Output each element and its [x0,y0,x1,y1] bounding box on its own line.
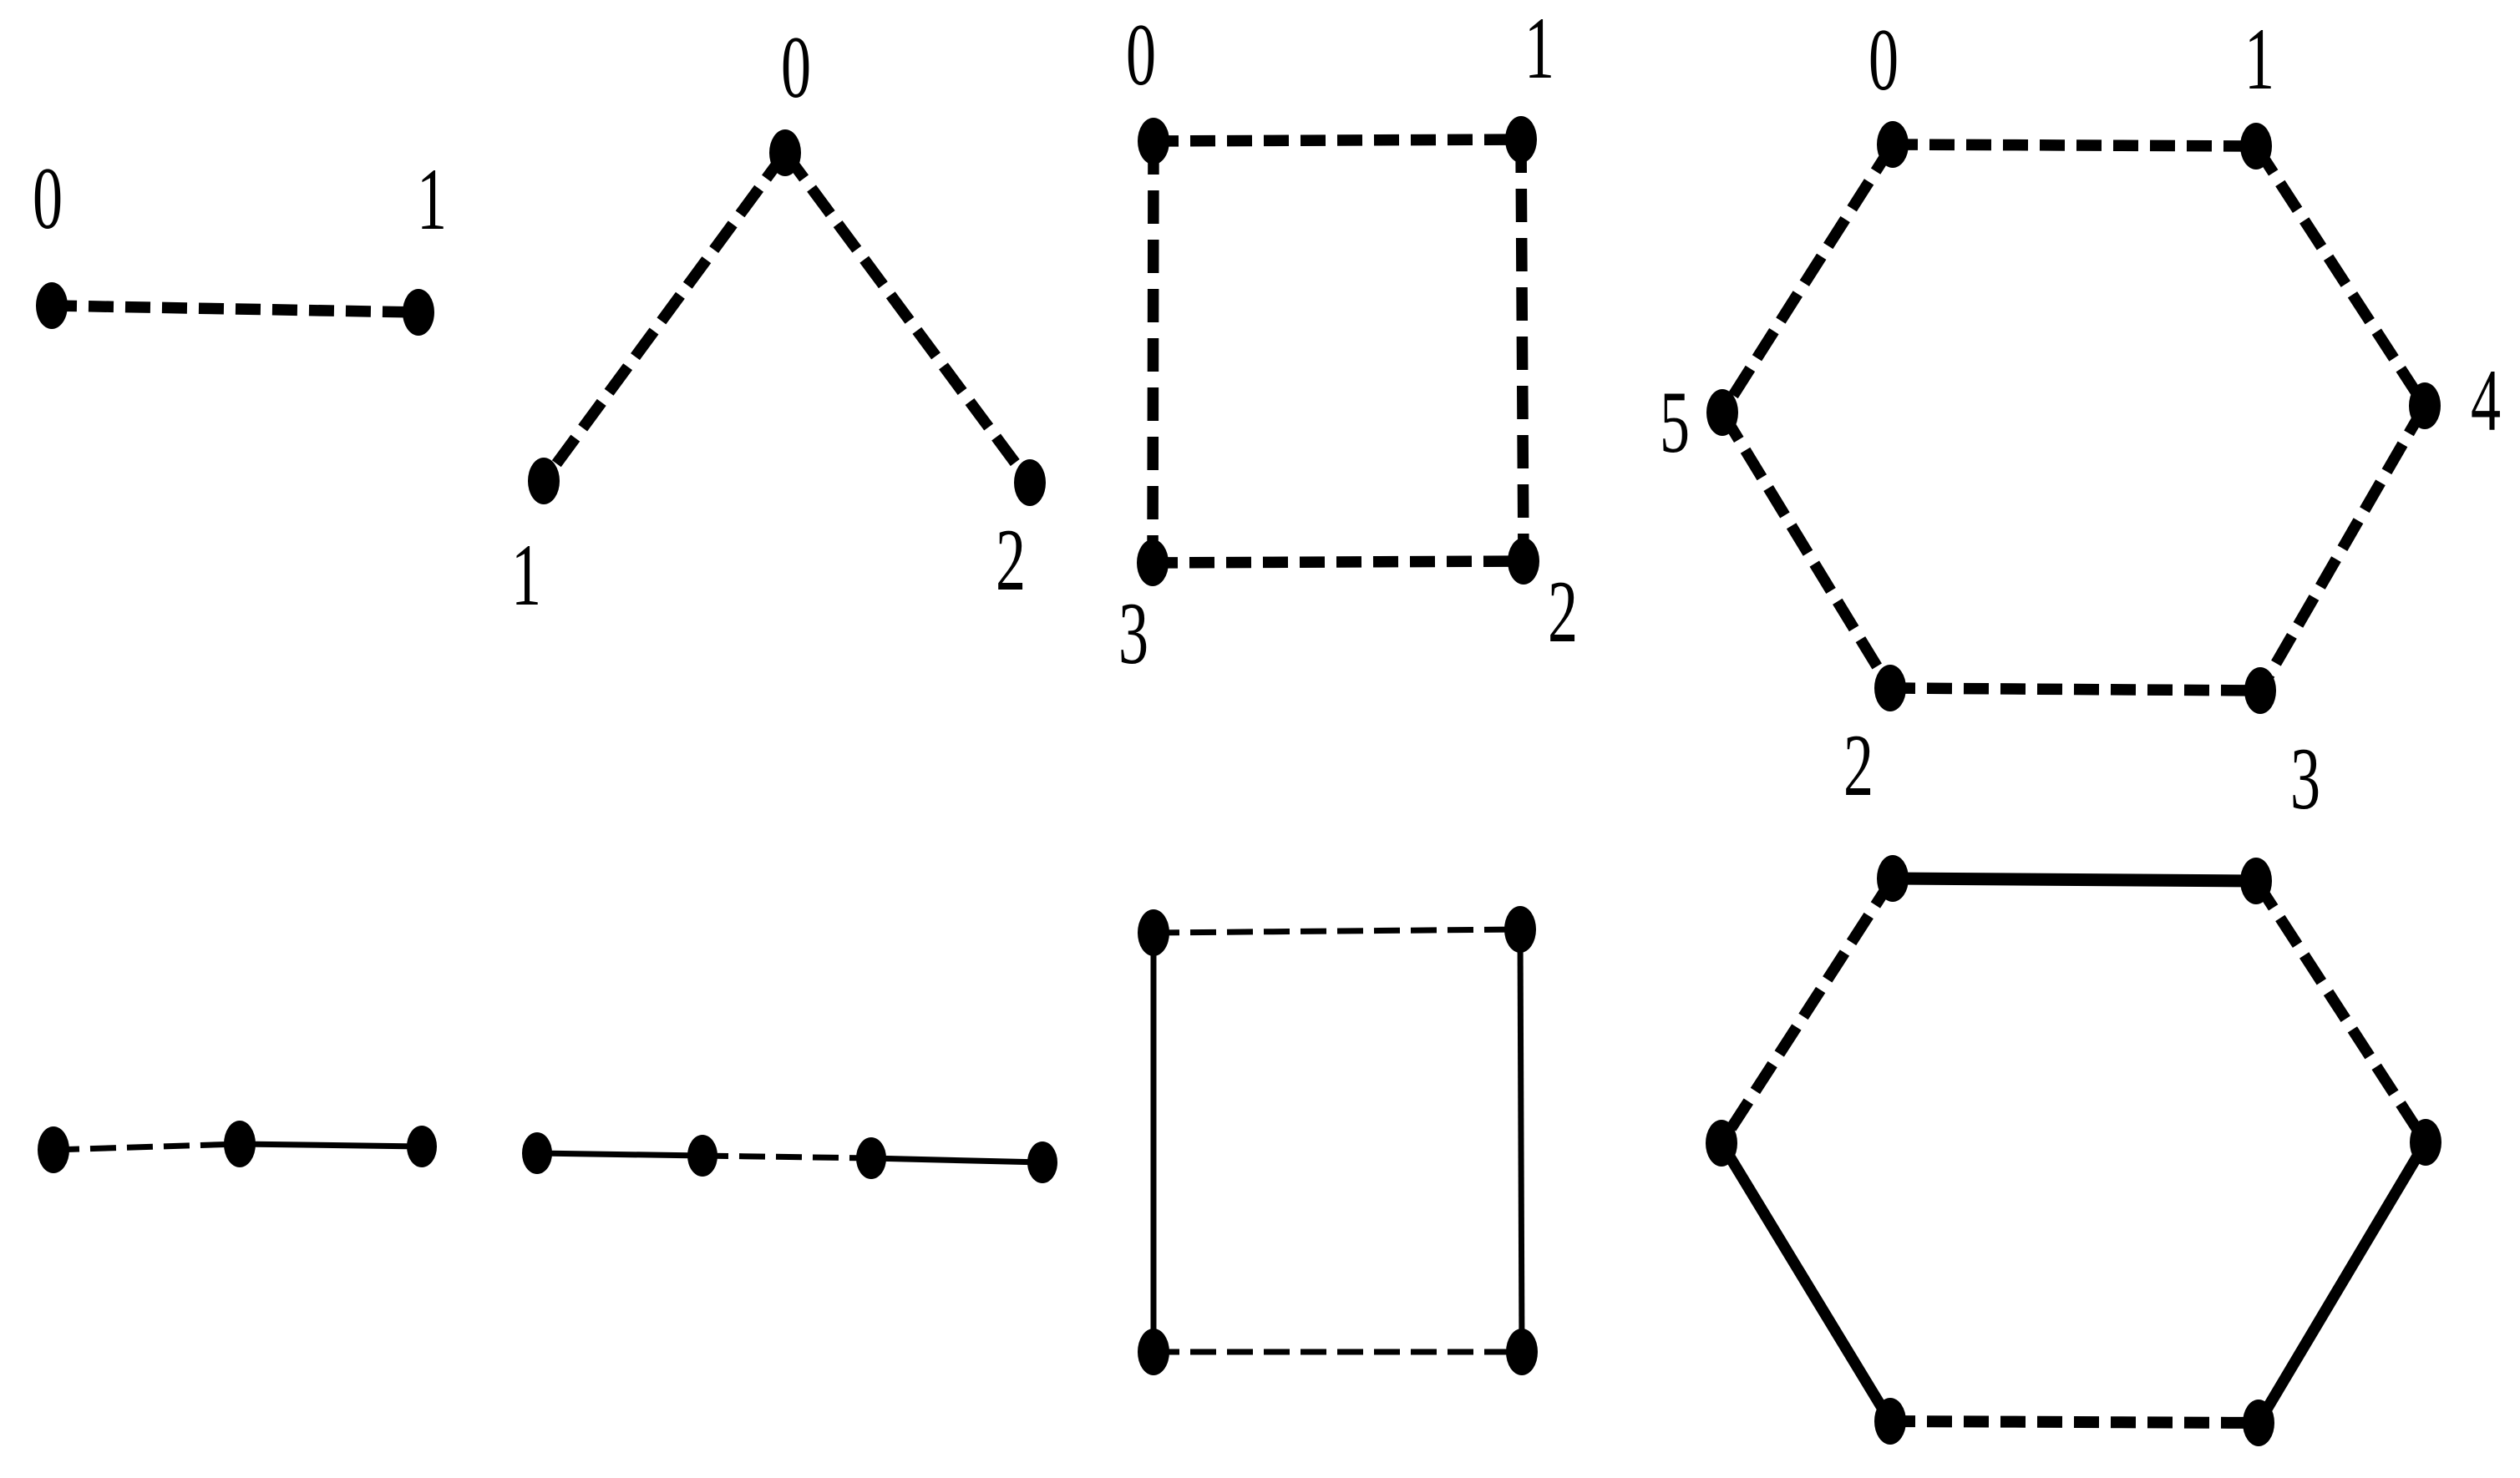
svg-text:1: 1 [417,149,447,248]
node 0 [1877,121,1909,168]
svg-text:0: 0 [1868,10,1899,109]
svg-text:1: 1 [1524,0,1554,97]
node bottom-left [1138,1329,1169,1375]
edge 0-3 thick dashed [1153,141,1154,563]
graph C4 unlabeled (bottom, third) [1138,906,1538,1375]
edge 0-1 thick dashed [544,153,785,481]
node 2 [1874,665,1906,711]
node b [224,1121,256,1167]
svg-text:0: 0 [33,149,63,247]
node top-right [2240,858,2272,904]
lower-left edge thick solid [1721,1143,1890,1421]
node bottom-right [1506,1329,1538,1375]
svg-text:2: 2 [996,510,1026,609]
edge 0-2 thick dashed [785,153,1030,483]
node left [1706,1120,1737,1167]
right edge thin solid [1520,929,1522,1352]
svg-text:5: 5 [1660,372,1690,471]
lower-right edge thick solid [2259,1142,2426,1423]
node a [38,1126,69,1173]
node 0 [36,282,68,329]
node bottom-right [2243,1400,2274,1446]
top edge thick solid [1893,878,2256,881]
edge 1-4 thick dashed [2256,146,2425,406]
edge 2-3 thick dashed [1890,688,2260,691]
edge 0-1 thick dashed [1893,144,2256,146]
edge 0-1 thick dashed [1154,139,1521,141]
edge 3-2 thick dashed [1153,561,1524,563]
node 1 [1505,116,1537,163]
svg-text:2: 2 [1843,716,1874,814]
node 3 [1137,539,1169,586]
svg-text:1: 1 [511,525,541,624]
svg-text:3: 3 [2290,729,2320,828]
svg-text:2: 2 [1548,562,1578,661]
node 2 [1508,538,1539,585]
graph P2: edge 0-1 (top-left) [33,149,447,336]
node f [856,1137,886,1179]
node 1 [403,289,434,336]
edge 1-2 thick dashed [1521,139,1524,561]
node 1 [2240,123,2272,170]
bottom edge thick dashed [1890,1421,2259,1423]
svg-text:0: 0 [781,18,811,116]
graph C6 unlabeled (bottom-right) [1706,855,2441,1446]
edge e-f thin dashed [702,1156,871,1158]
node top-left [1138,909,1169,956]
svg-text:0: 0 [1126,5,1156,104]
node 0 [769,129,801,176]
node 2 [1014,459,1046,506]
node 4 [2409,382,2441,429]
svg-text:4: 4 [2471,351,2501,449]
left edge thin solid [1151,933,1157,1352]
graph P3 unlabeled (bottom-left) [38,1121,437,1173]
node top-right [1504,906,1536,953]
graph P4 unlabeled (bottom, second) [522,1132,1057,1183]
node 3 [2244,667,2276,714]
edge d-e thin solid [537,1153,702,1156]
svg-text:1: 1 [2244,9,2274,108]
top edge thin dashed [1154,929,1520,933]
node g [1027,1141,1057,1183]
edge 0-1 thick dashed [52,306,418,312]
node right [2410,1119,2441,1166]
upper-left edge thick dashed [1721,878,1893,1143]
node top-left [1877,855,1909,902]
graph C6 cycle 0-1-4-3-2-5 (top-right) [1660,9,2501,828]
node c [407,1126,437,1167]
node 1 [528,458,560,504]
bottom edge thin dashed [1154,1349,1522,1355]
graph C4 cycle 0-1-2-3 (top, third) [1118,0,1578,682]
edge 5-2 thick dashed [1722,413,1890,688]
edge f-g thin solid [871,1158,1042,1162]
graph P3 path 1-0-2 (top, second) [511,18,1046,624]
node bottom-left [1874,1398,1906,1445]
node 5 [1706,389,1738,436]
svg-text:3: 3 [1118,584,1148,682]
node 0 [1138,118,1169,165]
node e [687,1135,717,1177]
edge a-b thin dashed [53,1144,240,1150]
edge b-c thin solid [240,1144,422,1146]
node d [522,1132,552,1174]
edge 4-3 thick dashed [2260,406,2425,691]
upper-right edge thick dashed [2256,881,2426,1142]
edge 0-5 thick dashed [1722,144,1893,413]
